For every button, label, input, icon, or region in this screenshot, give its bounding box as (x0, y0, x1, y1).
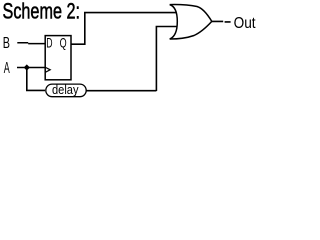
wire A to clock input (17, 67, 45, 69)
svg-text:Scheme 2:: Scheme 2: (3, 0, 81, 24)
svg-text:B: B (3, 35, 10, 52)
junction dot on A wire (24, 64, 30, 70)
clock edge triangle (46, 67, 51, 72)
svg-text:Q: Q (60, 35, 67, 51)
wire Q output up and right to OR gate top input (71, 13, 176, 45)
delay ellipse (46, 84, 86, 97)
wire delay output to riser (86, 90, 157, 92)
OR gate U2 (170, 5, 212, 39)
wire B to D input (17, 42, 45, 45)
flip-flop U1 box (45, 36, 71, 80)
wire junction down to delay (27, 68, 45, 91)
wire OR output (212, 20, 231, 23)
svg-text:D: D (46, 35, 52, 51)
svg-text:delay: delay (52, 83, 79, 97)
svg-text:A: A (4, 60, 10, 77)
wire riser up to OR gate lower input (156, 27, 176, 92)
svg-text:Out: Out (234, 15, 256, 32)
